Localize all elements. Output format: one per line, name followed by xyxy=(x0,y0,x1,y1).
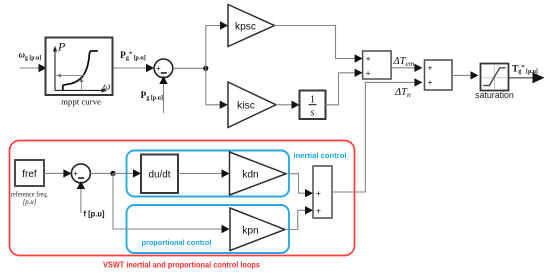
mppt omega axis xyxy=(55,88,108,92)
wire node B to du/dt xyxy=(113,169,141,177)
wire node A down to kisc xyxy=(206,68,228,109)
block fref xyxy=(15,160,44,186)
mppt power curve xyxy=(63,51,98,91)
mppt horizontal marker arrow xyxy=(56,74,84,78)
svg-text:s: s xyxy=(311,108,315,119)
node B junction dot xyxy=(110,171,115,176)
wire node A up to kpsc xyxy=(206,21,228,68)
svg-text:[p.u]: [p.u] xyxy=(23,199,37,206)
svg-text:+: + xyxy=(428,62,433,72)
svg-text:+: + xyxy=(366,54,371,64)
wire f input into S4 xyxy=(77,181,85,213)
mppt P axis xyxy=(53,46,57,91)
sum block S5 xyxy=(313,166,332,218)
wire kdn to sum S5 upper input xyxy=(286,174,313,198)
svg-text:1: 1 xyxy=(310,95,315,106)
svg-text:+: + xyxy=(316,205,321,215)
red frame VSWT loops xyxy=(10,141,355,256)
gain kisc xyxy=(228,82,276,128)
svg-text:kpn: kpn xyxy=(242,224,259,236)
sum junction S4 xyxy=(71,164,90,183)
svg-text:inertial control: inertial control xyxy=(294,151,347,160)
svg-text:fref: fref xyxy=(22,169,37,180)
svg-text:P: P xyxy=(57,40,66,54)
blue frame proportional control xyxy=(127,205,290,253)
blue frame inertial control xyxy=(127,151,290,197)
svg-text:reference freq.: reference freq. xyxy=(11,192,49,199)
gain kpn xyxy=(230,208,285,251)
svg-text:+: + xyxy=(428,77,433,87)
svg-text:du/dt: du/dt xyxy=(149,168,171,180)
svg-text:+: + xyxy=(366,68,371,78)
mppt vertical marker arrow xyxy=(80,78,84,91)
gain kdn xyxy=(230,152,287,195)
svg-text:+: + xyxy=(73,169,78,178)
svg-text:ω: ω xyxy=(103,82,110,93)
svg-text:kisc: kisc xyxy=(237,100,255,112)
wire S5 up to S3 lower input (delta Tn) xyxy=(332,78,422,192)
gain kpsc xyxy=(228,5,275,47)
wire kpn to sum S5 lower input xyxy=(285,206,313,229)
sum junction S1 xyxy=(154,59,173,78)
wire mppt to sum S1 xyxy=(114,64,155,72)
block saturation xyxy=(481,64,509,91)
sum block S3 xyxy=(425,60,453,90)
svg-text:+: + xyxy=(316,188,321,198)
block du/dt xyxy=(141,155,178,194)
svg-text:saturation: saturation xyxy=(475,90,514,100)
svg-text:kpsc: kpsc xyxy=(235,20,256,32)
wire S3 to saturation xyxy=(452,71,479,79)
block mppt curve xyxy=(46,38,113,96)
wire S1 to node A xyxy=(173,67,206,69)
wire kpsc to sum S2 upper input xyxy=(275,26,363,63)
node A junction dot xyxy=(203,66,208,71)
svg-text:+: + xyxy=(156,64,161,73)
svg-text:proportional control: proportional control xyxy=(142,238,212,247)
wire integrator to sum S2 lower input xyxy=(326,69,363,105)
wire S2 to S3 with dTem xyxy=(391,64,422,72)
block integrator 1/s xyxy=(300,91,326,120)
wire du/dt to kdn xyxy=(178,169,230,177)
svg-text:f [p.u]: f [p.u] xyxy=(84,210,105,219)
sum block S2 xyxy=(363,51,392,79)
wire S4 to node B xyxy=(90,172,113,174)
wire saturation output Tg* xyxy=(509,72,545,83)
wire input omega_g into mppt block xyxy=(20,64,47,72)
svg-text:mppt curve: mppt curve xyxy=(61,97,101,107)
svg-text:kdn: kdn xyxy=(242,169,259,181)
wire Pg input into S1 xyxy=(159,76,167,113)
wire fref to sum S4 xyxy=(44,169,71,177)
wire node B down to kpn xyxy=(113,173,230,233)
wire kisc to integrator xyxy=(276,101,300,109)
svg-text:VSWT inertial and proportional: VSWT inertial and proportional control l… xyxy=(103,261,260,270)
